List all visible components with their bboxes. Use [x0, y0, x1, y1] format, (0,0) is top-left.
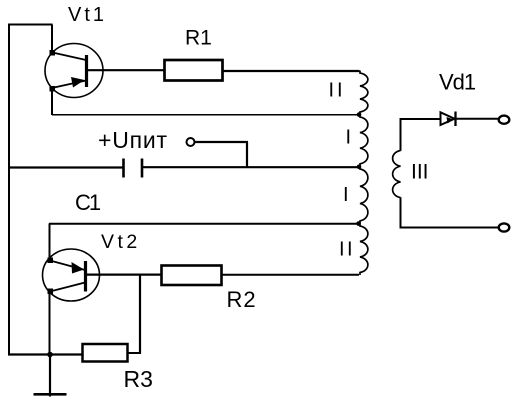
svg-text:Vt1: Vt1 [68, 4, 107, 26]
resistor R1 [165, 60, 223, 81]
wire: ground drop [49, 355, 51, 397]
wire: supply rail right segment to center tap [143, 166, 359, 168]
svg-text:Vt2: Vt2 [101, 231, 141, 253]
svg-text:+Uпит: +Uпит [98, 127, 168, 153]
wire: Vt2 emitter to winding I/II junction [49, 223, 358, 225]
wire: winding III bottom riser [400, 197, 402, 228]
wire: R2 to winding bottom [222, 274, 360, 276]
resistor R3 [83, 344, 128, 362]
wire: diode to output terminal [456, 118, 498, 120]
wire: Vt1 emitter to winding II/I junction [52, 114, 359, 116]
wire: R3 right lead [128, 352, 142, 354]
wire: left rail [8, 24, 10, 356]
diode Vd1 [441, 112, 456, 127]
ground [34, 393, 67, 396]
wire: Vt1 base to R1 [87, 69, 165, 71]
wire: supply rail left segment [8, 166, 123, 168]
terminal: +U supply [187, 138, 195, 146]
wire: bottom-right output [401, 227, 499, 229]
node: winding junction II/I [357, 112, 362, 117]
wire: R1 to winding top [223, 70, 360, 72]
transistor Vt2 [43, 249, 100, 301]
terminal: output bottom [499, 223, 510, 231]
wire: Vt2 emitter riser [49, 224, 51, 261]
svg-text:R2: R2 [227, 287, 257, 312]
wire: base branch down to R3 [139, 275, 141, 353]
node: winding junction I/I (center tap) [357, 165, 362, 170]
wire: Vt1 emitter drop [51, 88, 53, 115]
svg-text:I: I [346, 127, 352, 149]
wire: supply terminal drop [246, 142, 248, 167]
svg-text:II: II [329, 80, 346, 102]
wire: Vt1 collector drop [51, 25, 53, 54]
wire: winding III top riser [400, 118, 402, 151]
transformer primary winding column [360, 71, 368, 276]
transistor Vt1 [45, 44, 103, 98]
wire: Vt2 base to R2 [86, 274, 162, 276]
wire: top wire [8, 24, 53, 26]
wire: Vt2 collector drop [49, 291, 51, 355]
node: winding junction I/II [356, 221, 361, 226]
wire: top-right to diode [401, 118, 441, 120]
svg-text:Vd1: Vd1 [439, 70, 476, 95]
capacitor C1 [124, 159, 143, 178]
svg-text:I: I [343, 184, 349, 206]
svg-text:R1: R1 [185, 27, 212, 50]
resistor R2 [162, 266, 222, 286]
wire: from supply terminal [195, 141, 249, 143]
svg-text:II: II [339, 239, 355, 261]
svg-text:C1: C1 [75, 190, 101, 215]
terminal: output top [499, 116, 510, 124]
svg-text:R3: R3 [124, 366, 153, 392]
transformer secondary winding III [393, 151, 401, 198]
svg-text:III: III [411, 161, 429, 184]
wire: bottom wire from left rail [8, 353, 83, 355]
node: ground junction [47, 352, 53, 358]
